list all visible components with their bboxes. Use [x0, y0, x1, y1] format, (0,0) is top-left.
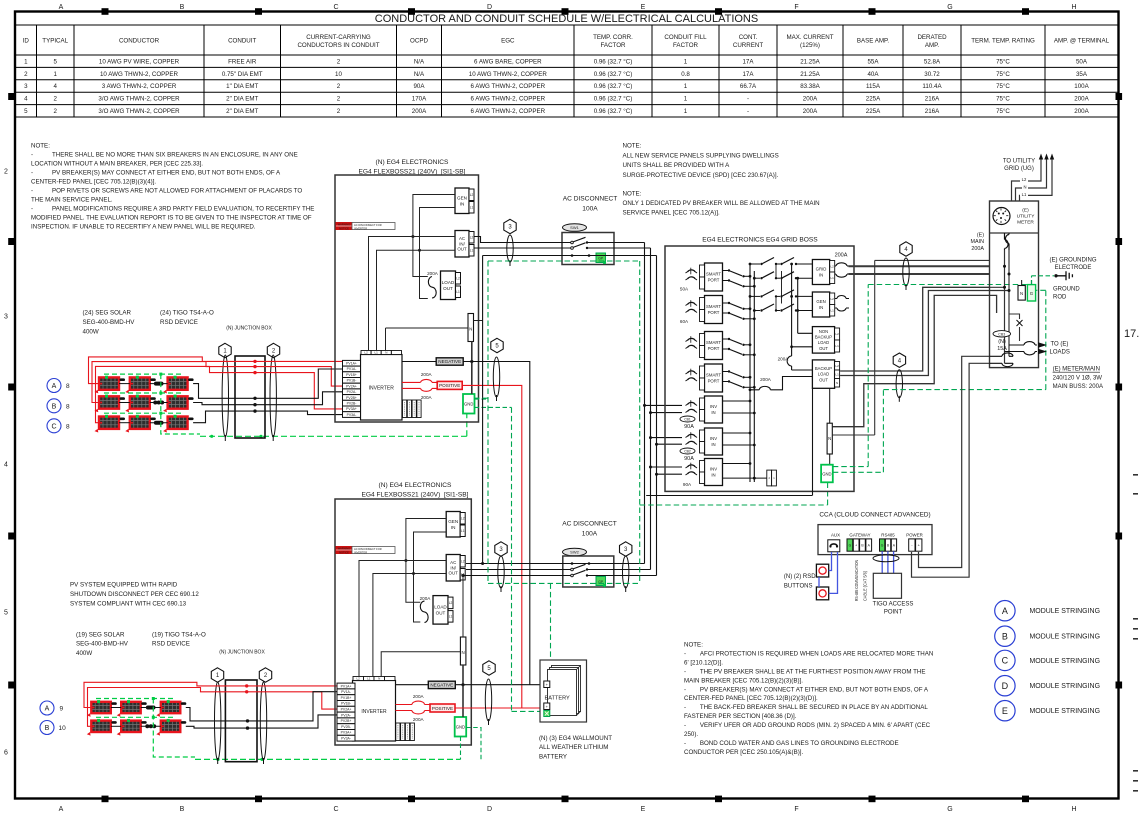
svg-text:D: D	[487, 4, 492, 11]
svg-text:MODULE STRINGING: MODULE STRINGING	[1030, 606, 1101, 615]
svg-text:8: 8	[66, 423, 70, 430]
breaker backfed PV (N) 15A	[993, 331, 1011, 337]
conduit tag 3 (ac inverter2 left)	[495, 542, 507, 556]
PV module string C row (array 1)	[95, 415, 194, 433]
svg-text:L2: L2	[449, 601, 453, 605]
PV input terminals inverter1	[343, 360, 361, 366]
svg-text:L2: L2	[831, 264, 835, 268]
svg-text:(19) TIGO TS4-A-O: (19) TIGO TS4-A-O	[152, 632, 206, 639]
svg-text:1: 1	[684, 108, 688, 115]
svg-text:5: 5	[4, 610, 8, 617]
svg-text:AC DISCONNECT: AC DISCONNECT	[563, 196, 618, 203]
svg-text:E: E	[1002, 706, 1008, 716]
svg-text:E: E	[641, 806, 646, 813]
svg-text:225A: 225A	[866, 96, 881, 103]
wires INV IN to internal bus	[723, 401, 767, 478]
SW2 pole L1	[571, 574, 574, 577]
svg-text:2: 2	[53, 96, 57, 103]
svg-text:AC DISCONNECT FOR: AC DISCONNECT FOR	[354, 547, 382, 551]
INV IN breaker 1 (90A)	[680, 396, 723, 430]
wire neutral gridboss to corridor	[646, 495, 812, 497]
svg-text:NOTE:: NOTE:	[31, 143, 50, 150]
svg-text:L2: L2	[470, 235, 474, 239]
svg-text:200A: 200A	[421, 395, 433, 400]
svg-text:200A: 200A	[1074, 108, 1089, 115]
EGC gridboss to panel (green)	[833, 285, 1046, 473]
transfer switch gen L2	[750, 290, 812, 298]
wire PV string C negative (array1)	[193, 411, 342, 423]
wire PV string B positive (array2)	[88, 688, 338, 727]
wire AC N inverter1 run	[483, 255, 657, 257]
svg-text:POSITIVE: POSITIVE	[439, 383, 460, 388]
svg-text:2: 2	[337, 96, 341, 103]
battery bank (N)(3) EG4 WallMount	[540, 660, 587, 722]
svg-text:TIGO ACCESS: TIGO ACCESS	[873, 602, 914, 608]
PV module string B row (array 2)	[87, 719, 187, 736]
svg-text:(E): (E)	[977, 232, 984, 238]
svg-text:EG4 FLEXBOSS21 (240V) [SI1-SB: EG4 FLEXBOSS21 (240V) [SI1-SB]	[361, 491, 468, 498]
svg-text:35A: 35A	[1076, 71, 1088, 78]
GEN IN port inverter1	[455, 188, 469, 214]
svg-text:17.2: 17.2	[1124, 328, 1139, 340]
svg-text:0.8: 0.8	[681, 71, 690, 78]
svg-text:OUT: OUT	[449, 571, 459, 576]
svg-text:+: +	[855, 544, 857, 548]
svg-text:IN/: IN/	[450, 565, 456, 570]
conduit run symbol 1 (array1)	[222, 355, 228, 437]
svg-text:- THE PV BREAKER SHALL: - THE PV BREAKER SHALL BE AT THE FURTHES…	[684, 668, 925, 675]
svg-text:0.96 (32.7 °C): 0.96 (32.7 °C)	[594, 96, 633, 103]
svg-text:INVERTER: INVERTER	[361, 709, 387, 715]
svg-text:0.96 (32.7 °C): 0.96 (32.7 °C)	[594, 108, 633, 115]
svg-text:INV: INV	[710, 436, 717, 441]
SMART PORT 1	[680, 263, 756, 292]
svg-text:L1: L1	[1022, 192, 1027, 197]
ground GND terminal inverter1	[463, 394, 475, 414]
svg-text:BATTERY: BATTERY	[539, 753, 567, 760]
svg-text:6 AWG THWN-2, COPPER: 6 AWG THWN-2, COPPER	[470, 96, 545, 103]
svg-text:200A: 200A	[1074, 96, 1089, 103]
svg-text:3/O AWG THWN-2, COPPER: 3/O AWG THWN-2, COPPER	[98, 96, 180, 103]
svg-text:ALL NEW SERVICE PANELS SUPPLYI: ALL NEW SERVICE PANELS SUPPLYING DWELLIN…	[623, 152, 779, 159]
svg-text:INVERTER: INVERTER	[369, 385, 395, 391]
svg-text:ONLY 1 DEDICATED PV BREAKER WI: ONLY 1 DEDICATED PV BREAKER WILL BE ALLO…	[623, 200, 820, 207]
svg-text:CENTER-FED PANEL [CEC 705.12(B: CENTER-FED PANEL [CEC 705.12(B)(2)(3)(D)…	[684, 695, 818, 702]
svg-text:EGC: EGC	[501, 38, 515, 45]
svg-text:A: A	[45, 706, 50, 713]
wire tap INV3 pole1	[651, 466, 683, 468]
svg-text:SMART: SMART	[706, 373, 721, 378]
svg-text:IN: IN	[819, 305, 823, 310]
wire AC L2 inverter2 to SW2	[466, 569, 651, 571]
svg-text:PV1B-: PV1B-	[347, 379, 357, 383]
conduit tag 3 (ac inverter2 right)	[620, 542, 632, 556]
svg-text:40A: 40A	[867, 71, 879, 78]
svg-text:PV2A-: PV2A-	[347, 390, 357, 394]
svg-text:INV: INV	[710, 404, 717, 409]
svg-text:8: 8	[66, 403, 70, 410]
internal bus A	[749, 264, 751, 482]
svg-text:2" DIA EMT: 2" DIA EMT	[226, 96, 258, 103]
svg-text:A: A	[52, 383, 57, 390]
svg-text:9: 9	[60, 706, 64, 713]
svg-text:B: B	[180, 806, 185, 813]
SW1 pole L2	[571, 241, 574, 244]
svg-text:WARNING: WARNING	[338, 223, 350, 227]
breaker (E) MAIN 200A	[1005, 233, 1009, 250]
svg-text:- THERE SHALL BE NO: - THERE SHALL BE NO MORE THAN SIX BREAKE…	[31, 152, 298, 159]
legend module stringing C	[995, 650, 1015, 670]
svg-text:MAIN BUSS: 200A: MAIN BUSS: 200A	[1053, 384, 1103, 390]
svg-text:AC: AC	[450, 560, 456, 565]
svg-text:4: 4	[24, 96, 28, 103]
svg-text:225A: 225A	[866, 108, 881, 115]
svg-text:IN: IN	[819, 272, 823, 277]
svg-text:L2: L2	[357, 677, 361, 681]
svg-text:200A: 200A	[835, 253, 848, 259]
svg-text:F: F	[794, 4, 798, 11]
utility meter M1	[993, 208, 1010, 225]
svg-text:IN: IN	[711, 472, 715, 477]
svg-text:216A: 216A	[925, 108, 940, 115]
svg-text:OUT: OUT	[819, 377, 828, 382]
svg-text:3: 3	[24, 83, 28, 90]
Tigo access point	[873, 573, 901, 598]
svg-text:CONDUCTOR AND CONDUIT SCHEDULE: CONDUCTOR AND CONDUIT SCHEDULE W/ELECTRI…	[375, 13, 758, 25]
svg-text:PV2B-: PV2B-	[341, 725, 351, 729]
wire CCA power feed	[919, 356, 990, 567]
svg-text:200A: 200A	[427, 271, 439, 276]
neutral busbar inverter1	[468, 314, 474, 342]
svg-text:200A: 200A	[760, 377, 772, 382]
svg-text:LOAD: LOAD	[818, 372, 829, 377]
svg-text:- BOND COLD WATER AND G: - BOND COLD WATER AND GAS LINES TO GROUN…	[684, 740, 899, 747]
svg-text:OUT: OUT	[819, 346, 828, 351]
svg-text:A: A	[59, 806, 64, 813]
panel bus wiring	[990, 250, 1032, 363]
inverter2 internal wiring	[359, 519, 463, 677]
svg-text:2: 2	[4, 169, 8, 176]
svg-text:IN: IN	[711, 442, 715, 447]
svg-text:INV: INV	[710, 467, 717, 472]
svg-text:1: 1	[684, 96, 688, 103]
svg-text:SMART: SMART	[706, 272, 721, 277]
conduit tag 4 (service)	[900, 242, 912, 256]
svg-text:GEN: GEN	[448, 519, 458, 524]
feeder to non-backup load out	[798, 278, 813, 333]
svg-text:3/O AWG THWN-2, COPPER: 3/O AWG THWN-2, COPPER	[98, 108, 180, 115]
GEN IN port	[812, 292, 829, 317]
svg-text:4: 4	[53, 83, 57, 90]
svg-text:200A: 200A	[412, 108, 427, 115]
svg-text:GEN: GEN	[457, 195, 467, 200]
svg-text:LOAD: LOAD	[434, 604, 447, 609]
svg-text:CABLE (CAT 5/6): CABLE (CAT 5/6)	[863, 571, 868, 601]
AC IN/OUT port inverter1	[455, 231, 469, 258]
svg-text:OCPD: OCPD	[410, 38, 428, 45]
EGC from inverter2 GND	[461, 728, 482, 760]
svg-text:10 AWG PV WIRE, COPPER: 10 AWG PV WIRE, COPPER	[99, 58, 180, 65]
svg-text:240/120 V 1Ø, 3W: 240/120 V 1Ø, 3W	[1053, 376, 1103, 382]
svg-text:0.96 (32.7 °C): 0.96 (32.7 °C)	[594, 58, 633, 65]
svg-text:200A: 200A	[971, 246, 984, 252]
svg-text:0.96 (32.7 °C): 0.96 (32.7 °C)	[594, 71, 633, 78]
svg-text:L2: L2	[461, 559, 465, 563]
wire PV string A negative (array2)	[186, 692, 337, 721]
svg-text:- POP RIVETS OR SCRE: - POP RIVETS OR SCREWS ARE NOT ALLOWED F…	[31, 188, 302, 195]
GEN IN port inverter2	[446, 512, 460, 538]
svg-text:75°C: 75°C	[996, 96, 1010, 103]
svg-text:L1: L1	[461, 529, 465, 533]
svg-text:AMP. @ TERMINAL: AMP. @ TERMINAL	[1054, 38, 1110, 45]
svg-text:CONDUCTOR: CONDUCTOR	[119, 38, 160, 45]
svg-text:- THE BACK-FED BREAKER: - THE BACK-FED BREAKER SHALL BE SECURED …	[684, 704, 928, 711]
wire riser V3 (ac corridor)	[656, 256, 658, 576]
svg-text:110.4A: 110.4A	[922, 83, 942, 90]
node NEGATIVE dc bus inverter2	[428, 681, 455, 688]
svg-text:PV3A+: PV3A+	[341, 731, 352, 735]
svg-text:2: 2	[337, 83, 341, 90]
svg-text:B: B	[52, 403, 57, 410]
svg-text:OUT: OUT	[436, 611, 446, 616]
svg-text:75°C: 75°C	[996, 108, 1010, 115]
svg-text:N: N	[385, 351, 387, 355]
ground pigtail SW2	[596, 577, 606, 586]
svg-text:INVERTER: INVERTER	[354, 227, 367, 231]
svg-text:BUTTONS: BUTTONS	[784, 584, 813, 590]
conduit run symbol 1 (array2)	[215, 682, 221, 760]
svg-text:N: N	[1020, 291, 1023, 296]
array1 module grounding (green)	[104, 374, 200, 434]
svg-text:(N): (N)	[998, 339, 1006, 345]
warning placard inverter2	[336, 547, 352, 554]
svg-text:(N) EG4 ELECTRONICS: (N) EG4 ELECTRONICS	[376, 159, 450, 166]
svg-text:N/A: N/A	[414, 58, 425, 65]
svg-text:75°C: 75°C	[996, 71, 1010, 78]
svg-text:ELECTRODE: ELECTRODE	[1055, 265, 1092, 271]
RS-485 cable to Tigo (blue)	[882, 551, 893, 573]
svg-text:A: A	[1002, 606, 1008, 616]
svg-text:RS-485 COMMUNICATION: RS-485 COMMUNICATION	[854, 560, 859, 601]
svg-text:1: 1	[684, 83, 688, 90]
svg-text:LOAD: LOAD	[442, 280, 455, 285]
legend module stringing B	[995, 626, 1015, 646]
svg-text:(E) GROUNDING: (E) GROUNDING	[1050, 258, 1097, 264]
svg-text:G: G	[849, 544, 852, 548]
svg-text:RS485: RS485	[881, 533, 895, 538]
svg-text:CONDUIT: CONDUIT	[228, 38, 256, 45]
svg-text:AUX: AUX	[831, 533, 840, 538]
svg-text:(E): (E)	[1022, 208, 1029, 214]
svg-text:52.8A: 52.8A	[924, 58, 941, 65]
wire dc positive inverter1 to battery	[402, 382, 522, 708]
svg-text:66.7A: 66.7A	[740, 83, 757, 90]
svg-text:-: -	[747, 96, 749, 103]
svg-text:L1: L1	[835, 344, 839, 348]
svg-text:N: N	[378, 677, 380, 681]
svg-text:G: G	[947, 4, 952, 11]
svg-text:NOTE:: NOTE:	[684, 642, 703, 649]
svg-text:75°C: 75°C	[996, 83, 1010, 90]
svg-text:83.38A: 83.38A	[800, 83, 820, 90]
svg-text:SW1: SW1	[570, 225, 579, 230]
grid boss enclosure	[665, 246, 854, 491]
svg-text:MODULE STRINGING: MODULE STRINGING	[1030, 681, 1101, 690]
svg-text:200A: 200A	[413, 694, 425, 699]
SW2 pole L2	[571, 568, 574, 571]
svg-text:ROD: ROD	[1053, 295, 1067, 301]
conduit run symbol 2 (array2)	[260, 682, 266, 760]
arrows to loads	[1038, 342, 1047, 348]
svg-text:LOADS: LOADS	[1050, 350, 1070, 356]
svg-text:115A: 115A	[866, 83, 881, 90]
svg-text:AC DISCONNECT FOR: AC DISCONNECT FOR	[354, 223, 382, 227]
svg-text:B: B	[180, 4, 185, 11]
svg-text:NOTE:: NOTE:	[623, 143, 642, 150]
SW1 pole L1	[571, 247, 574, 250]
svg-text:INSPECTION. IF UNABLE TO RECER: INSPECTION. IF UNABLE TO RECERTIFY A NEW…	[31, 224, 256, 231]
svg-text:L2: L2	[461, 516, 465, 520]
svg-text:10: 10	[59, 725, 67, 732]
svg-text:55A: 55A	[867, 58, 879, 65]
svg-text:NOTE:: NOTE:	[623, 191, 642, 198]
svg-text:D: D	[1002, 681, 1009, 691]
svg-text:(N) (3) EG4 WALLMOUNT: (N) (3) EG4 WALLMOUNT	[539, 735, 612, 742]
svg-text:90A: 90A	[684, 424, 694, 430]
SMART PORT 3	[686, 332, 756, 360]
svg-text:CCA (CLOUD CONNECT ADVANCED): CCA (CLOUD CONNECT ADVANCED)	[819, 512, 930, 519]
svg-text:75°C: 75°C	[996, 58, 1010, 65]
feeder backup load out via 200A fuse	[750, 377, 812, 390]
(E) grounding electrode	[1032, 276, 1055, 285]
svg-text:8: 8	[66, 383, 70, 390]
panel neutral bar	[1018, 286, 1025, 301]
battery positive terminal	[544, 703, 550, 710]
conduit tag 1 (array1)	[219, 343, 231, 357]
svg-text:MODULE STRINGING: MODULE STRINGING	[1030, 656, 1101, 665]
neutral busbar inverter2	[460, 637, 466, 665]
smart port aux terminal	[767, 470, 772, 486]
wire PV string A positive (array1)	[89, 357, 343, 384]
svg-text:BACKUP: BACKUP	[815, 366, 832, 371]
svg-text:PV1A-: PV1A-	[341, 690, 351, 694]
svg-text:L1: L1	[470, 205, 474, 209]
svg-text:GND: GND	[464, 402, 473, 407]
svg-text:SHUTDOWN DISCONNECT PER CEC 69: SHUTDOWN DISCONNECT PER CEC 690.12	[70, 591, 199, 598]
svg-text:OUT: OUT	[457, 247, 467, 252]
svg-text:FASTENER PER SECTION [408.36 (: FASTENER PER SECTION [408.36 (D)].	[684, 713, 797, 720]
warning placard inverter1	[336, 223, 352, 230]
wire AC N SW2 run	[466, 563, 645, 565]
svg-text:FACTOR: FACTOR	[601, 42, 627, 49]
svg-text:CONDUIT FILL: CONDUIT FILL	[664, 34, 707, 41]
INVERTER unit box inverter2	[353, 681, 396, 742]
svg-text:N: N	[828, 436, 831, 441]
svg-text:2" DIA EMT: 2" DIA EMT	[226, 108, 258, 115]
svg-text:UNITS SHALL BE PROVIDED WITH A: UNITS SHALL BE PROVIDED WITH A	[623, 162, 731, 169]
junction box array2	[225, 680, 257, 762]
svg-text:UTILITY: UTILITY	[1017, 214, 1036, 220]
svg-text:RSD DEVICE: RSD DEVICE	[152, 641, 190, 648]
wire AC L2 inverter1 to SW1 to gridboss	[474, 237, 645, 243]
svg-text:MAIN BREAKER [CEC 705.12(B)(2): MAIN BREAKER [CEC 705.12(B)(2)(3)(B)].	[684, 677, 803, 684]
conduit run dc inverter2	[485, 679, 491, 721]
string label B (8 modules)	[47, 399, 61, 413]
wire service L2 gridboss to main panel	[849, 273, 990, 275]
svg-text:17A: 17A	[742, 71, 754, 78]
svg-text:90A: 90A	[683, 482, 692, 487]
LOAD OUT port inverter1	[441, 271, 456, 300]
legend module stringing E	[995, 701, 1015, 721]
svg-text:(24) TIGO TS4-A-O: (24) TIGO TS4-A-O	[160, 310, 214, 317]
svg-text:MODULE STRINGING: MODULE STRINGING	[1030, 706, 1101, 715]
INVERTER unit box inverter1	[361, 355, 403, 421]
svg-text:60A: 60A	[680, 319, 689, 324]
svg-text:CB2: CB2	[684, 449, 691, 453]
svg-text:PV2A-: PV2A-	[341, 713, 351, 717]
wire AC L1 inverter1 to SW1 to gridboss	[474, 247, 651, 249]
wire tap CB2 pole2	[657, 443, 683, 445]
svg-text:10: 10	[335, 71, 342, 78]
breakers to existing loads	[1009, 342, 1037, 345]
svg-text:21.25A: 21.25A	[800, 58, 820, 65]
svg-text:17A: 17A	[742, 58, 754, 65]
string label B (10 modules)	[40, 721, 54, 735]
svg-text:400W: 400W	[76, 650, 92, 657]
svg-text:POSITIVE: POSITIVE	[432, 706, 453, 711]
svg-text:CONT.: CONT.	[739, 34, 758, 41]
svg-text:RSD DEVICE: RSD DEVICE	[160, 319, 198, 326]
wire PV string C positive (array1)	[96, 366, 343, 422]
EGC riser (green corridor)	[639, 261, 641, 583]
svg-text:PV1A+: PV1A+	[341, 684, 352, 688]
conduit run ac inverter1	[507, 235, 513, 262]
svg-text:ID: ID	[23, 38, 30, 45]
svg-text:D: D	[487, 806, 492, 813]
transfer switch grid L1	[754, 272, 812, 280]
svg-text:AMP.: AMP.	[925, 42, 940, 49]
svg-text:GND: GND	[456, 725, 465, 730]
svg-text:(N) JUNCTION BOX: (N) JUNCTION BOX	[226, 326, 272, 332]
svg-text:N/A: N/A	[414, 71, 425, 78]
svg-text:CONDUCTORS IN CONDUIT: CONDUCTORS IN CONDUIT	[297, 42, 379, 49]
svg-text:- AFCI PROTECTION IS RE: - AFCI PROTECTION IS REQUIRED WHEN LOADS…	[684, 651, 933, 658]
transfer switch cross links	[776, 264, 782, 311]
svg-text:(125%): (125%)	[800, 42, 820, 49]
feeder bus to load out (with 200A fuse)	[791, 264, 793, 356]
svg-text:FREE AIR: FREE AIR	[228, 58, 257, 65]
svg-text:90A: 90A	[413, 83, 425, 90]
AC IN/OUT port inverter2	[446, 555, 460, 582]
svg-text:OUT: OUT	[443, 286, 453, 291]
transfer switch gen L1	[754, 304, 812, 312]
svg-text:GROUND: GROUND	[1053, 287, 1080, 293]
svg-text:3 AWG THWN-2, COPPER: 3 AWG THWN-2, COPPER	[102, 83, 177, 90]
svg-text:WARNING: WARNING	[338, 547, 350, 551]
svg-text:C: C	[333, 4, 338, 11]
svg-text:200A: 200A	[803, 108, 818, 115]
svg-text:5: 5	[53, 58, 57, 65]
SMART PORT 2	[680, 296, 756, 325]
svg-text:B: B	[45, 725, 50, 732]
svg-text:1" DIA EMT: 1" DIA EMT	[226, 83, 258, 90]
svg-text:N: N	[836, 381, 838, 385]
svg-text:PV1B+: PV1B+	[341, 696, 352, 700]
svg-text:GRID (UG): GRID (UG)	[1004, 166, 1034, 172]
svg-text:PV1B+: PV1B+	[346, 373, 357, 377]
svg-text:N: N	[469, 327, 472, 332]
svg-text:L1: L1	[456, 290, 460, 294]
